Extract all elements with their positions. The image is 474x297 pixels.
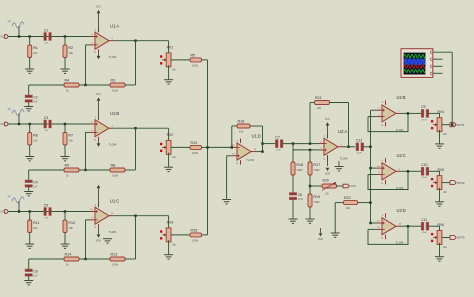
svg-text:U1:A: U1:A: [110, 24, 119, 29]
svg-text:100k: 100k: [313, 200, 320, 204]
svg-text:U2:B: U2:B: [397, 95, 406, 100]
svg-text:VDD: VDD: [318, 238, 323, 241]
svg-text:1uF: 1uF: [44, 42, 48, 44]
svg-text:RV6: RV6: [438, 223, 445, 227]
svg-text:U1:C: U1:C: [110, 199, 119, 204]
svg-text:RV3: RV3: [167, 220, 174, 224]
svg-text:C7: C7: [275, 135, 279, 139]
svg-text:10k: 10k: [68, 51, 73, 55]
svg-text:R19: R19: [313, 195, 320, 199]
svg-text:1uF: 1uF: [44, 130, 48, 132]
svg-text:100k: 100k: [192, 239, 199, 243]
svg-text:VDD: VDD: [325, 173, 330, 176]
svg-text:R21: R21: [315, 96, 322, 100]
svg-text:U2:A: U2:A: [338, 129, 347, 134]
svg-text:R20: R20: [323, 179, 329, 183]
svg-text:47uF: 47uF: [298, 198, 304, 201]
svg-text:1uF: 1uF: [33, 185, 38, 188]
svg-text:U1:D: U1:D: [252, 133, 261, 138]
svg-text:10k: 10k: [33, 226, 38, 230]
svg-text:C5: C5: [44, 203, 48, 207]
svg-text:100k: 100k: [112, 174, 119, 178]
svg-text:TL084: TL084: [246, 158, 254, 162]
svg-text:47uF: 47uF: [422, 119, 428, 121]
svg-text:10k: 10k: [239, 130, 244, 134]
svg-text:C8: C8: [298, 193, 302, 197]
svg-text:C1: C1: [44, 28, 48, 32]
svg-text:R16: R16: [238, 119, 245, 123]
svg-text:OUT3: OUT3: [457, 236, 465, 240]
svg-text:R11: R11: [33, 221, 40, 225]
svg-text:R18: R18: [296, 163, 303, 167]
svg-text:C2: C2: [33, 95, 37, 99]
svg-text:C9: C9: [421, 105, 425, 109]
svg-text:C12: C12: [356, 139, 362, 143]
svg-text:47uF: 47uF: [276, 150, 282, 152]
svg-text:47uF: 47uF: [357, 153, 363, 155]
svg-text:AF: AF: [8, 107, 12, 111]
svg-text:1uF: 1uF: [44, 217, 48, 219]
svg-text:R8: R8: [111, 163, 116, 167]
svg-text:TL084: TL084: [109, 55, 117, 59]
svg-text:VDD: VDD: [351, 185, 356, 188]
svg-text:100k: 100k: [313, 168, 320, 172]
svg-text:OUT1: OUT1: [457, 123, 465, 127]
svg-text:10k: 10k: [68, 226, 73, 230]
svg-text:R14: R14: [65, 252, 72, 256]
svg-text:VDD: VDD: [96, 239, 101, 242]
svg-text:100k: 100k: [192, 64, 199, 68]
svg-text:R3: R3: [111, 78, 116, 82]
svg-text:10k: 10k: [33, 139, 38, 143]
svg-text:R12: R12: [68, 221, 75, 225]
svg-text:RV5: RV5: [438, 168, 445, 172]
svg-text:U1:B: U1:B: [110, 111, 119, 116]
svg-text:R9: R9: [65, 163, 70, 167]
svg-text:100k: 100k: [112, 89, 119, 93]
svg-text:R17: R17: [313, 163, 320, 167]
svg-text:100k: 100k: [112, 263, 119, 267]
svg-text:VCC: VCC: [325, 118, 330, 121]
svg-text:10k: 10k: [68, 139, 73, 143]
svg-text:C6: C6: [33, 269, 37, 273]
svg-text:10k: 10k: [33, 51, 38, 55]
svg-text:47uF: 47uF: [422, 232, 428, 234]
svg-text:R4: R4: [65, 78, 70, 82]
svg-text:C10: C10: [421, 163, 427, 167]
svg-text:R1: R1: [33, 46, 38, 50]
svg-text:10k: 10k: [346, 206, 351, 210]
svg-text:R22: R22: [344, 196, 351, 200]
svg-text:R7: R7: [68, 134, 73, 138]
svg-text:R15: R15: [191, 228, 198, 232]
svg-text:R6: R6: [33, 134, 38, 138]
svg-text:VCC: VCC: [96, 93, 101, 96]
svg-text:RV4: RV4: [438, 110, 445, 114]
svg-text:100k: 100k: [192, 151, 199, 155]
svg-text:RV1: RV1: [167, 45, 174, 49]
svg-text:AF: AF: [8, 19, 12, 23]
svg-text:100k: 100k: [296, 168, 303, 172]
svg-text:VCC: VCC: [96, 6, 101, 9]
svg-text:TL084: TL084: [109, 143, 117, 147]
svg-text:TL084: TL084: [340, 157, 348, 161]
svg-text:R10: R10: [191, 141, 198, 145]
svg-text:R13: R13: [111, 252, 118, 256]
svg-text:C4: C4: [33, 180, 37, 184]
svg-text:RV2: RV2: [167, 133, 174, 137]
svg-text:R5: R5: [191, 53, 196, 57]
svg-text:TL084: TL084: [109, 230, 117, 234]
svg-text:47uF: 47uF: [422, 177, 428, 179]
svg-text:C11: C11: [421, 218, 427, 222]
svg-text:10k: 10k: [317, 106, 322, 110]
svg-text:U2:D: U2:D: [397, 208, 406, 213]
svg-text:C3: C3: [44, 116, 48, 120]
svg-text:1uF: 1uF: [33, 274, 38, 277]
svg-text:OUT2: OUT2: [457, 181, 465, 185]
svg-text:U2:C: U2:C: [397, 153, 406, 158]
svg-text:R2: R2: [68, 46, 73, 50]
svg-text:AF: AF: [8, 194, 12, 198]
svg-text:1uF: 1uF: [33, 100, 38, 103]
